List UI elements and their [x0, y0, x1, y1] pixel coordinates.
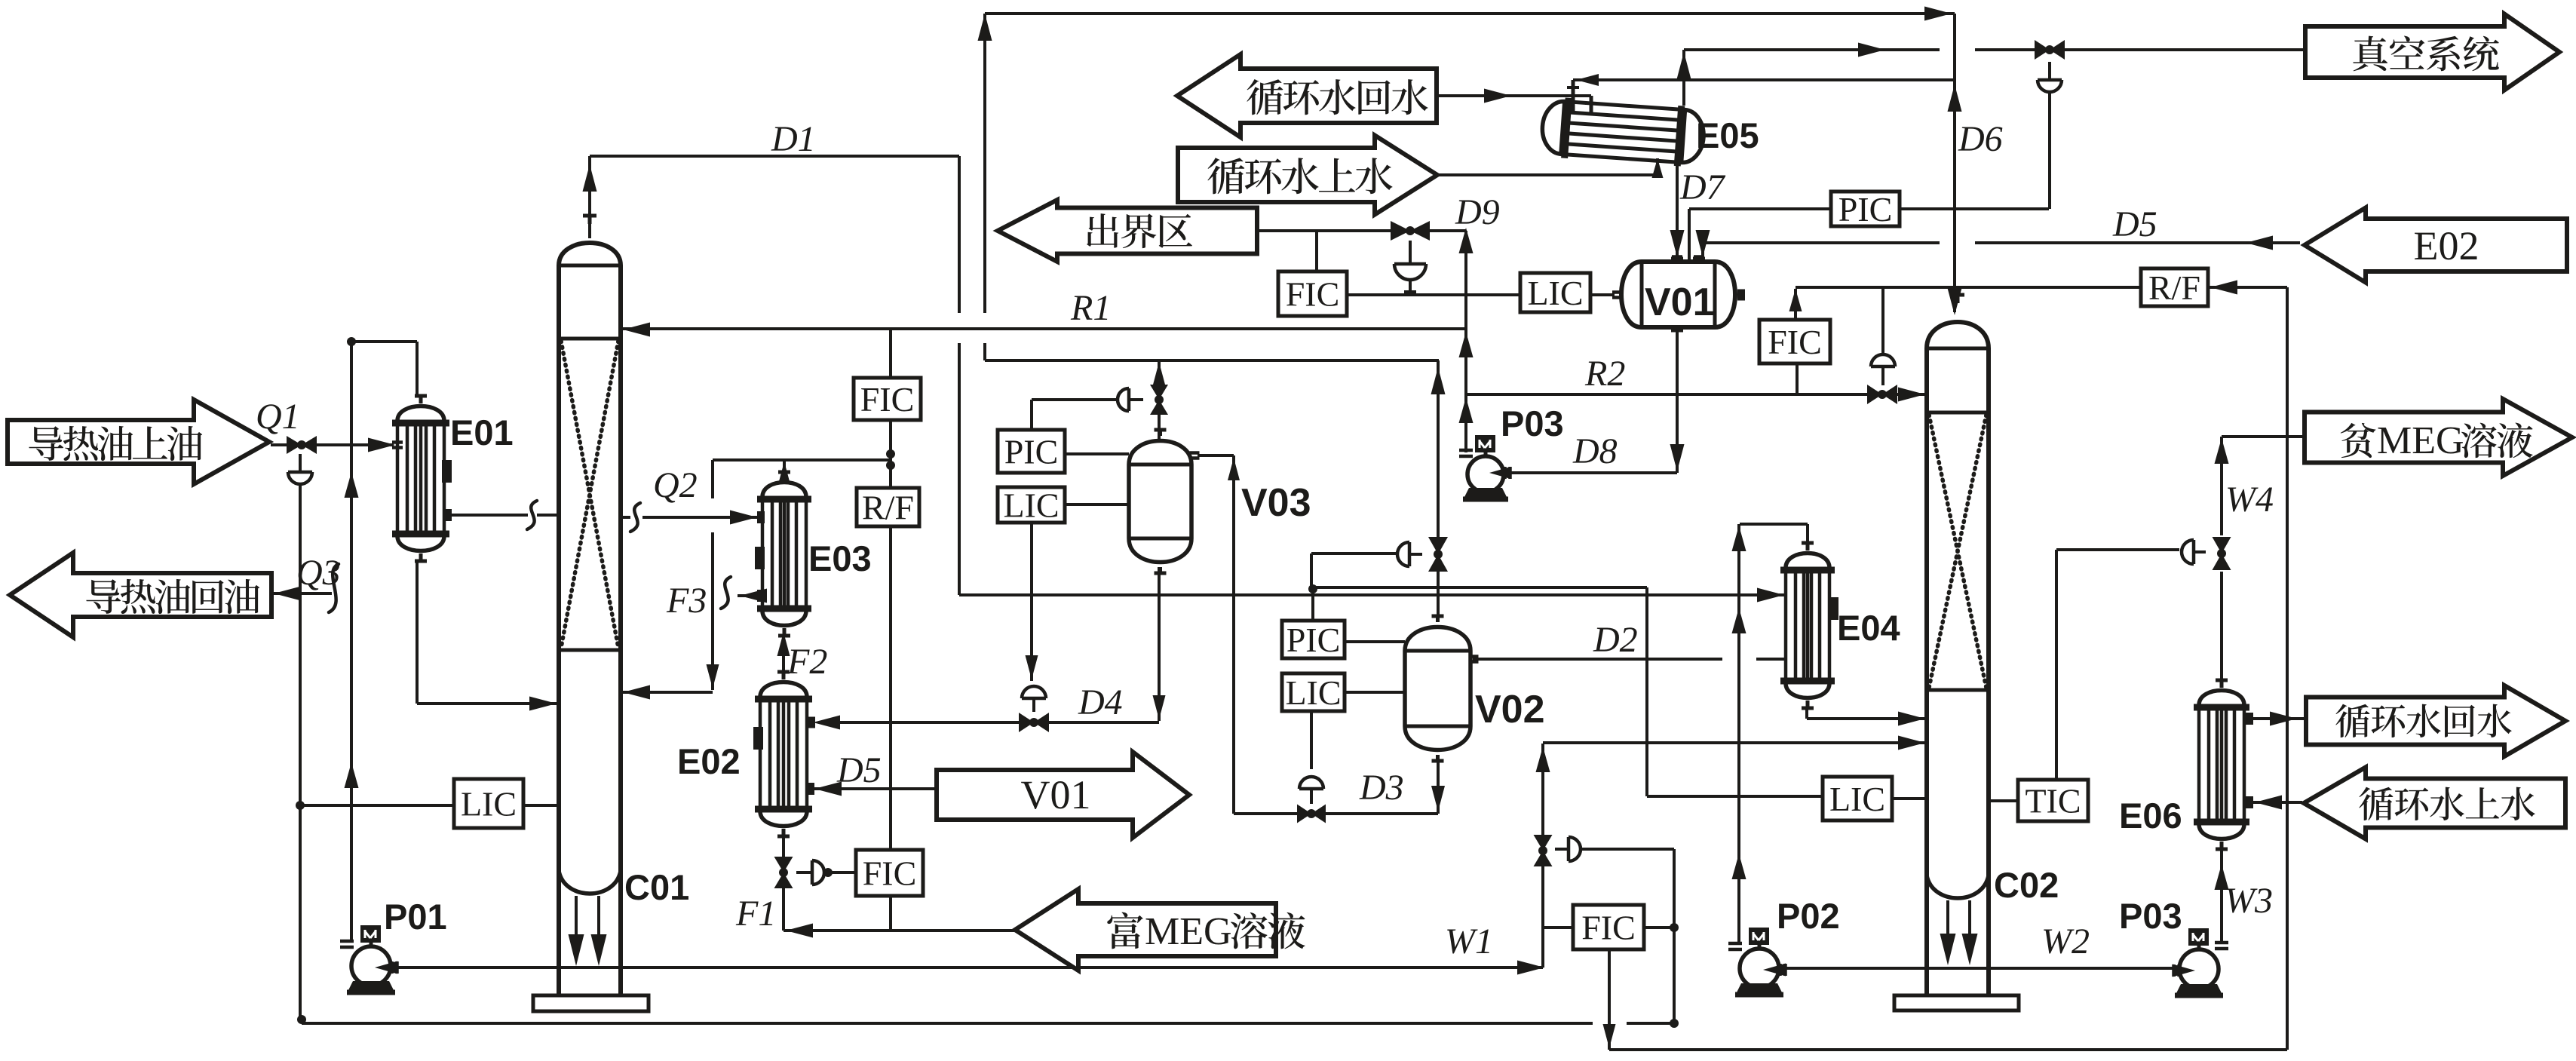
W1 valve actuator — [1569, 837, 1581, 861]
pump P03 (bottoms) — [2179, 949, 2219, 989]
instrument TIC C02 — [2018, 780, 2088, 821]
wire D1 horizontal — [590, 155, 959, 158]
E02 side bracket — [753, 727, 763, 750]
svg-text:FIC: FIC — [863, 854, 917, 893]
wire LIC C01 to column — [523, 804, 559, 807]
svg-text:LIC: LIC — [1527, 274, 1583, 312]
wire FIC W1 signal — [1673, 849, 1676, 1023]
wire W1 feed to C02 — [1543, 741, 1925, 744]
wire V01 top stubs — [1676, 256, 1679, 262]
wire P02 riser — [1737, 524, 1740, 945]
wire D1 to E04 — [959, 593, 1784, 596]
text cooling water supply bottom — [2359, 787, 2535, 820]
E03 side bracket — [755, 547, 765, 569]
break E01-C01 — [527, 501, 537, 529]
wire E06 CW supply — [2253, 801, 2302, 804]
valve R2 — [1867, 385, 1897, 404]
svg-text:D5: D5 — [2112, 204, 2157, 244]
wire F1 riser — [782, 834, 785, 859]
break F3 — [721, 577, 731, 609]
instrument PIC D6 — [1831, 192, 1900, 226]
wire Q1 line — [271, 443, 394, 446]
wire W3 riser — [2220, 844, 2223, 943]
valve V03 vent — [1150, 385, 1168, 415]
pump P03 (reflux) — [1467, 456, 1504, 492]
wire LIC C02 to column — [1892, 797, 1927, 800]
svg-text:FIC: FIC — [860, 380, 915, 419]
wire E04 bottom to C02 — [1805, 710, 1808, 719]
wire D3 line — [1234, 812, 1298, 815]
svg-text:FIC: FIC — [1581, 909, 1636, 947]
wire FIC to LIC to V01 — [1347, 293, 1520, 296]
wire LIC C01 line — [300, 804, 454, 807]
wire D2 — [1473, 658, 1722, 661]
svg-text:LIC: LIC — [1285, 673, 1341, 712]
svg-text:LIC: LIC — [1003, 486, 1059, 525]
wire C01 top to D1 — [588, 156, 591, 238]
wire bottom signal left — [302, 1022, 1593, 1025]
svg-text:P03: P03 — [1501, 403, 1564, 443]
wire E04 top loop — [1806, 524, 1809, 541]
valve D3 — [1297, 805, 1326, 823]
break Q3 — [329, 564, 339, 612]
wire E05 condensate to V01 header — [1573, 78, 1955, 81]
wire V03 right nozzle line — [1198, 454, 1234, 457]
svg-text:R/F: R/F — [2148, 268, 2200, 307]
svg-text:D4: D4 — [1078, 682, 1123, 722]
svg-text:TIC: TIC — [2025, 782, 2081, 820]
block arrow from E02 — [2305, 208, 2567, 283]
text vacuum system — [2353, 35, 2498, 71]
wire E05 vapor riser — [1682, 50, 1685, 106]
wire product riser — [1464, 231, 1467, 452]
wire TIC to column — [1989, 799, 2018, 802]
wire battery limit header — [1257, 229, 1466, 232]
svg-text:V02: V02 — [1475, 688, 1545, 731]
R2 valve actuator — [1871, 354, 1895, 366]
svg-text:E03: E03 — [808, 538, 872, 578]
wire E03 top loop — [783, 460, 786, 471]
wire R1 to FIC — [889, 329, 892, 378]
svg-text:W2: W2 — [2041, 921, 2090, 961]
valve vacuum line — [2035, 40, 2065, 60]
wire PIC V02 to vessel — [1345, 640, 1405, 643]
instrument LIC V02 — [1282, 673, 1345, 711]
svg-text:R2: R2 — [1584, 354, 1625, 394]
wire D7 — [1676, 157, 1679, 259]
heat exchanger E03 — [762, 483, 806, 498]
column C02 bottoms arrows — [1940, 934, 1956, 965]
text rich MEG — [1107, 912, 1143, 949]
wire F1 line — [784, 929, 1015, 932]
D4 valve actuator — [1022, 686, 1046, 698]
wire D1 down leg — [958, 156, 961, 313]
svg-text:P01: P01 — [384, 897, 447, 937]
wire V01 to PIC — [1689, 207, 1831, 210]
wire W2 — [1783, 967, 2176, 970]
wire W4 to R/F — [2208, 286, 2287, 289]
wire R2 into C02 — [1897, 393, 1925, 396]
wire D5 right segment — [1975, 241, 2300, 244]
wire lean MEG line — [2222, 435, 2306, 438]
heat exchanger E02 — [760, 682, 807, 698]
svg-text:LIC: LIC — [1829, 780, 1885, 818]
pump P02 — [1740, 949, 1779, 988]
svg-text:FIC: FIC — [1286, 275, 1340, 314]
wire D6 vertical — [1953, 14, 1956, 312]
valve D4 — [1019, 713, 1049, 732]
svg-text:MEG: MEG — [2377, 419, 2464, 462]
block arrow hot oil supply — [8, 400, 269, 484]
pump P03 bottoms suction arrow — [2173, 964, 2195, 977]
wire TIC riser — [2055, 550, 2058, 780]
wire E06 CW return — [2252, 717, 2305, 720]
wire W1 arrow — [1517, 961, 1544, 975]
wire V02 riser lower — [1437, 572, 1440, 621]
instrument LIC C01 — [454, 779, 523, 828]
block arrow rich MEG in — [1015, 889, 1276, 971]
wire FIC F1 down — [889, 896, 892, 931]
wire FIC R2 bottom stub — [1796, 363, 1799, 394]
instrument LIC V01 — [1520, 273, 1590, 312]
svg-text:D8: D8 — [1572, 431, 1618, 471]
block arrow cooling water supply (bottom) — [2304, 768, 2565, 839]
block arrow to battery limit — [998, 200, 1257, 262]
wire Q2 line — [621, 516, 630, 519]
wire Q3 line — [271, 592, 332, 595]
instrument FIC W1 — [1573, 905, 1644, 949]
svg-text:W3: W3 — [2225, 881, 2273, 921]
heat exchanger E01 — [397, 406, 444, 422]
D3 valve actuator — [1299, 777, 1323, 789]
instrument FIC R2 — [1759, 320, 1830, 363]
wire FIC W1 left — [1543, 926, 1573, 929]
wire PIC to vacuum valve — [1900, 207, 2049, 210]
block arrow hot oil return — [10, 553, 271, 637]
wire RF down — [889, 526, 892, 850]
wire D5 from E02 — [813, 787, 935, 790]
text battery limit — [1087, 213, 1192, 248]
svg-text:D3: D3 — [1359, 768, 1404, 808]
svg-text:V01: V01 — [1645, 281, 1715, 324]
svg-text:P03: P03 — [2119, 896, 2182, 936]
wire E01 top loop — [350, 342, 353, 940]
instrument R/F left — [857, 488, 919, 526]
wire LIC C02 line — [1647, 795, 1823, 798]
wire D8 — [1511, 471, 1677, 474]
vessel V01 right nozzle tick — [1737, 290, 1745, 301]
V03 vent valve actuator — [1118, 388, 1129, 411]
block arrow to V01 — [937, 752, 1189, 838]
svg-text:E01: E01 — [450, 412, 514, 452]
block arrow cooling water supply (top) — [1178, 136, 1437, 215]
wire E01 bottom to C01 — [416, 563, 419, 704]
svg-text:D2: D2 — [1593, 620, 1638, 660]
svg-text:R1: R1 — [1070, 288, 1111, 328]
instrument PIC V03 — [998, 430, 1065, 473]
svg-text:C01: C01 — [624, 867, 689, 907]
wire PIC V03 to valve — [1030, 400, 1033, 430]
wire R2 — [1466, 393, 1867, 396]
text hot oil return — [86, 579, 259, 614]
instrument LIC V03 — [998, 487, 1065, 523]
svg-text:D9: D9 — [1455, 192, 1500, 232]
vessel V03 — [1129, 441, 1191, 563]
battery limit valve actuator — [1394, 264, 1426, 280]
svg-text:MEG: MEG — [1145, 910, 1232, 953]
wire E01 right to C01 — [446, 514, 528, 517]
column C02 base plate — [1894, 995, 2019, 1010]
valve V02 vent — [1428, 537, 1448, 572]
instrument FIC V01 — [1278, 271, 1347, 316]
svg-text:LIC: LIC — [461, 785, 517, 823]
svg-text:P02: P02 — [1777, 896, 1840, 936]
wire CW supply to E05 — [1437, 173, 1658, 176]
vacuum valve actuator — [2038, 80, 2062, 92]
block arrow lean MEG out — [2305, 399, 2572, 476]
svg-text:E02: E02 — [2414, 223, 2479, 268]
wire LIC V03 to D4 valve — [1030, 523, 1033, 681]
pump P01 suction arrow — [375, 961, 397, 974]
junction R/F tap — [886, 449, 895, 458]
column C01 base plate — [533, 995, 649, 1011]
distillation column C01 — [557, 265, 561, 995]
wire V02 bottom to D3 — [1437, 762, 1440, 814]
V02 vent valve actuator — [1397, 542, 1409, 566]
wire R/F header — [1796, 286, 2141, 289]
wire D2 PIC branch — [1645, 587, 1648, 796]
pump P03 suction arrow — [1489, 467, 1510, 479]
wire V01 bottom to D8 — [1676, 330, 1679, 473]
svg-text:E02: E02 — [677, 741, 741, 781]
svg-text:FIC: FIC — [1768, 323, 1822, 361]
svg-text:R/F: R/F — [862, 489, 914, 527]
block arrow vacuum system — [2305, 14, 2559, 90]
text cooling water return bottom — [2335, 704, 2511, 737]
wire vacuum line arrow — [1858, 43, 1885, 57]
valve W4 — [2213, 537, 2231, 570]
text cooling water return top — [1247, 79, 1428, 115]
E04 side bracket — [1829, 597, 1838, 620]
wire bottom left corner — [297, 1015, 306, 1024]
wire W4 riser from signal — [2286, 287, 2289, 1050]
wire Q1 to E01 flange — [392, 443, 403, 448]
wire R1 — [621, 327, 1466, 330]
wire E05 top stubs — [1572, 80, 1575, 113]
svg-text:D7: D7 — [1679, 167, 1726, 207]
wire FIC to RF — [889, 420, 892, 488]
wire W1 riser — [1541, 744, 1544, 837]
wire V02 vapor riser top — [983, 14, 986, 313]
valve Q1 — [287, 436, 317, 454]
text hot oil supply — [29, 426, 202, 461]
wire top header to C02 — [985, 12, 1955, 15]
pump P01 — [351, 946, 391, 986]
svg-text:PIC: PIC — [1286, 621, 1341, 659]
vessel V01 (horizontal drum) — [1621, 262, 1735, 327]
svg-text:F2: F2 — [787, 642, 827, 682]
text lean MEG — [2341, 423, 2376, 458]
block arrow cooling water return (top) — [1177, 54, 1437, 137]
svg-text:D6: D6 — [1958, 119, 2003, 159]
wire D5 into V01 — [1701, 243, 1704, 256]
wire CW return line — [1437, 94, 1591, 97]
wire FIC top stub — [1315, 231, 1318, 271]
wire vacuum line — [1684, 48, 1940, 51]
wire D4 to E02 — [833, 721, 1019, 724]
break Q2 — [630, 503, 640, 532]
wire V03 bottom to D4 — [1158, 567, 1161, 721]
svg-text:V01: V01 — [1021, 772, 1091, 817]
valve W1 — [1534, 835, 1553, 866]
wire PIC V03 to vessel — [1065, 452, 1129, 455]
svg-text:Q1: Q1 — [256, 397, 300, 437]
wire F2 — [782, 637, 785, 670]
block arrow cooling water return (bottom) — [2306, 685, 2565, 756]
Q1 valve actuator — [288, 472, 312, 484]
wire V02 vapor header — [985, 359, 1439, 362]
svg-text:W1: W1 — [1445, 921, 1493, 961]
heat exchanger E06 — [2199, 691, 2244, 706]
instrument FIC F1 — [856, 850, 923, 896]
vessel V02 — [1405, 627, 1470, 750]
svg-text:V03: V03 — [1241, 481, 1311, 525]
text cooling water supply top — [1207, 158, 1392, 194]
column C01 bottoms arrows — [569, 934, 584, 966]
W4 valve actuator — [2182, 540, 2194, 564]
svg-text:PIC: PIC — [1838, 190, 1893, 228]
wire FIC W1 down — [1608, 949, 1611, 1050]
wire bottom signal right — [1609, 1048, 2287, 1051]
svg-text:C02: C02 — [1994, 865, 2059, 905]
instrument R/F right — [2141, 268, 2208, 306]
svg-text:W4: W4 — [2225, 480, 2274, 520]
wire V02 riser — [1437, 360, 1440, 537]
svg-text:Q2: Q2 — [653, 465, 698, 505]
instrument LIC C02 — [1823, 777, 1892, 820]
pump P02 suction arrow — [1763, 964, 1786, 977]
svg-text:E06: E06 — [2119, 796, 2182, 836]
F1 valve actuator — [812, 860, 824, 885]
instrument PIC V02 — [1282, 621, 1345, 658]
svg-text:PIC: PIC — [1004, 433, 1059, 471]
svg-text:F1: F1 — [735, 894, 776, 934]
wire F3 line — [738, 594, 757, 597]
svg-text:F3: F3 — [666, 581, 707, 621]
wire E06 top riser — [2220, 437, 2223, 535]
svg-text:D5: D5 — [836, 750, 882, 790]
valve battery limit — [1391, 221, 1430, 241]
svg-text:D1: D1 — [771, 119, 816, 159]
wire W1 bottoms line — [394, 966, 1543, 969]
heat exchanger E04 — [1786, 553, 1829, 569]
svg-text:E05: E05 — [1696, 115, 1759, 155]
distillation column C02 — [1924, 348, 1929, 995]
svg-text:E04: E04 — [1837, 608, 1900, 648]
E01 side bracket — [442, 460, 452, 483]
wire E03 loop to C01 — [621, 691, 713, 694]
wire LIC V03 to vessel — [1065, 503, 1129, 506]
wire FIC W1 right — [1644, 926, 1674, 929]
heat exchanger E05 — [1541, 97, 1706, 168]
instrument FIC R1 — [854, 378, 921, 420]
wire LIC V02 to vessel — [1345, 691, 1405, 694]
wire PIC V02 top stub — [1311, 588, 1314, 621]
valve F1 — [774, 857, 793, 888]
wire V03 vent riser — [1158, 360, 1161, 385]
